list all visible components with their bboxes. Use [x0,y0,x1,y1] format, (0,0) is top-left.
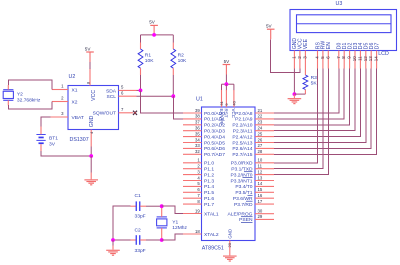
wire 5V to U1 top pins [225,75,227,85]
wire 5V to U2 VCC [89,62,91,69]
svg-text:13: 13 [258,175,263,180]
svg-text:P1.0: P1.0 [204,161,214,167]
wire 5V to LCD VCC [271,39,300,72]
power 5V U2 VCC [86,51,94,52]
svg-text:5K: 5K [311,81,318,87]
svg-text:XTAL1: XTAL1 [204,211,219,217]
svg-text:XTAL2: XTAL2 [204,232,219,238]
junction 5V tap [152,33,156,37]
U1 pin 20 GND bottom [229,241,231,256]
svg-text:R1: R1 [145,52,152,58]
svg-text:P3.0/RXD: P3.0/RXD [231,161,253,167]
svg-text:P0.0/AD0: P0.0/AD0 [204,111,225,117]
svg-text:25: 25 [258,131,263,136]
wire C1 to Y1 top junction [146,205,162,207]
svg-text:24: 24 [258,126,263,131]
U3 pin 4 RS [317,51,319,69]
svg-text:12: 12 [363,56,368,62]
U3 pin 9 D2 [349,51,351,69]
svg-text:10K: 10K [145,58,154,64]
U3 pin 2 VCC [299,51,301,69]
wire BT1 bottom to ground net [41,151,91,156]
svg-text:20: 20 [227,242,232,247]
svg-text:P2.4/A12: P2.4/A12 [232,134,252,140]
wire LCD GND down [293,69,295,95]
svg-text:33: 33 [195,143,200,148]
U1 pin 2 P1.1 [183,168,202,170]
U1 pin 26 P2.5/A13 [255,142,274,144]
wire R2 net to U1 pin38 [173,96,183,119]
IC U2 DS1307 body [68,86,119,130]
svg-text:LCD: LCD [378,51,389,57]
svg-text:22: 22 [258,114,263,119]
U1 pin 18 XTAL2 [183,233,202,235]
svg-text:P0.6/AD6: P0.6/AD6 [204,146,225,152]
U2 pin 5 SDA [119,89,137,91]
U1 pin 17 P3.7/RD [255,203,274,205]
U1 pin 32 P0.7/AD7 [183,153,202,155]
U3 pin 13 D6 [370,51,372,69]
power 5V above U1 [223,64,231,65]
bar WR [246,200,253,202]
svg-text:D7: D7 [374,43,380,50]
IC U1 AT89C51 body [202,107,256,241]
svg-text:Y1: Y1 [172,219,178,225]
junction C-ground net [111,238,115,242]
U1 pin 15 P3.5/T1 [255,191,274,193]
U1 pin 37 P0.2/AD2 [183,124,202,126]
wire C2 to Y1 bottom junction [146,239,162,241]
resistor R3 5K [304,69,306,76]
U3 pin 3 VEE [304,51,306,69]
svg-text:15: 15 [258,187,263,192]
U1 pin 40 VCC [233,84,235,90]
svg-text:26: 26 [258,137,263,142]
svg-text:27: 27 [258,143,263,148]
svg-text:28: 28 [258,149,263,154]
U1 pin 8 P1.7 [183,203,202,205]
svg-text:P0.4/AD4: P0.4/AD4 [204,134,225,140]
U3 pin 5 RW [322,51,324,69]
wire U2 GND down [90,147,92,157]
U1 pin 11 P3.1/TXD [255,168,274,170]
ground below U1 [223,256,237,257]
U2 pin 8 VCC top [89,69,91,86]
U1 pin 35 P0.4/AD4 [183,136,202,138]
svg-text:DS1307: DS1307 [70,137,89,143]
svg-text:3V: 3V [49,141,56,147]
svg-text:SDA: SDA [106,88,117,94]
wire LCD D1 to U1 pin 22 [274,69,344,119]
svg-text:32.768kHz: 32.768kHz [17,98,41,104]
wire R1 to SDA [140,75,142,90]
svg-text:14: 14 [374,56,379,62]
U1 pin 28 P2.7/A15 [255,153,274,155]
svg-text:P0.7/AD7: P0.7/AD7 [204,152,225,158]
svg-text:16: 16 [258,193,263,198]
wire LCD D2 to U1 pin 23 [274,69,350,125]
U1 pin 14 P3.4/T0 [255,185,274,187]
svg-text:R3: R3 [311,75,318,81]
U2 pin 2 X2 [52,101,68,103]
svg-text:5V: 5V [149,20,156,25]
svg-text:21: 21 [258,108,263,113]
wire XTAL2 net to U1 pin18 [162,234,183,240]
svg-text:EN: EN [326,42,332,49]
wire LCD RS to U1 pin 10 [274,69,318,163]
svg-text:37: 37 [195,120,200,125]
svg-text:34: 34 [195,137,200,142]
U1 pin 12 P3.2/INT0 [255,174,274,176]
wire LCD D4 to U1 pin 25 [274,69,360,137]
U1 pin 39 P0.0/AD0 [183,112,202,114]
U3 pin 12 D5 [365,51,367,69]
U1 pin 23 P2.2/A10 [255,124,274,126]
wire LCD D7 to U1 pin 28 [274,69,377,155]
svg-text:SQW/OUT: SQW/OUT [93,110,116,116]
svg-text:R2: R2 [178,52,185,58]
wire LCD RW to U1 pin 11 [274,69,323,169]
junction LCD GND / R3 [293,92,297,96]
svg-text:30: 30 [258,209,263,214]
svg-text:VCC: VCC [91,90,97,101]
battery BT1 3V [36,134,45,136]
svg-text:P0.3/AD3: P0.3/AD3 [204,129,225,135]
U1 pin 13 P3.3/INT1 [255,180,274,182]
svg-text:AT89C51: AT89C51 [202,245,224,251]
capacitor C2 33pF [131,239,137,241]
svg-text:P2.0/A8: P2.0/A8 [235,111,253,117]
svg-text:P1.2: P1.2 [204,172,214,178]
svg-text:P0.1/AD1: P0.1/AD1 [204,117,225,123]
svg-text:C1: C1 [135,193,142,199]
svg-text:29: 29 [258,214,263,219]
svg-text:C2: C2 [135,227,142,233]
wire R1 net to U1 pin39 [141,90,184,113]
svg-text:P1.5: P1.5 [204,190,214,196]
wire LCD D6 to U1 pin 27 [274,69,371,149]
U3 pin 11 D4 [359,51,361,69]
power 5V LCD VCC [267,29,275,30]
wire XTAL1 net to U1 pin19 [162,206,183,213]
U1 pin 29 PSEN [255,218,274,220]
svg-text:Y2: Y2 [17,91,23,97]
wire Y1 top stub [161,206,163,208]
svg-text:U1: U1 [196,96,203,102]
svg-text:P2.1/A9: P2.1/A9 [235,117,253,123]
U1 pin 16 P3.6/WR [255,197,274,199]
U3 pin 10 D3 [354,51,356,69]
svg-text:35: 35 [195,131,200,136]
junction SCL/R2 [171,94,175,98]
U1 pin 27 P2.6/A14 [255,147,274,149]
capacitor C1 33pF [131,205,137,207]
wire C1 C2 left to ground [113,206,131,240]
svg-text:5V: 5V [266,24,273,29]
svg-text:VBAT: VBAT [72,115,84,121]
svg-text:11: 11 [258,164,263,169]
svg-text:P2.2/A10: P2.2/A10 [232,123,252,129]
svg-text:VEE: VEE [303,38,309,49]
svg-text:5V: 5V [224,59,231,64]
U1 pin 38 P0.1/AD1 [183,118,202,120]
U1 pin 6 P1.5 [183,191,202,193]
svg-text:BT1: BT1 [49,135,58,141]
wire LCD EN to U1 pin 12 [274,69,328,175]
wire Y2 bottom to U2 X2 [8,102,52,110]
svg-text:10: 10 [258,158,263,163]
U2 pin 3 VBAT [50,116,68,118]
svg-text:38: 38 [195,114,200,119]
resistor R1 10K [140,35,142,43]
U1 pin 24 P2.3/A11 [255,130,274,132]
U1 pin 4 P1.3 [183,180,202,182]
wire Y1 bottom stub [161,238,163,240]
U3 pin 14 D7 [376,51,378,69]
svg-text:P2.7/A15: P2.7/A15 [232,152,252,158]
U1 pin 25 P2.4/A12 [255,136,274,138]
svg-text:10: 10 [352,56,357,62]
svg-text:P1.6: P1.6 [204,196,214,202]
svg-text:12: 12 [258,169,263,174]
svg-text:13: 13 [368,56,373,62]
bar TXD [244,171,253,173]
svg-text:32: 32 [195,149,200,154]
U1 pin 10 P3.0/RXD [255,162,274,164]
wire U2 SDA to R1 [137,89,141,91]
wire LCD D0 to U1 pin 21 [274,69,339,114]
ground below LCD [288,98,302,99]
junction SDA/R1 [139,89,143,93]
svg-text:P3.3/INT1: P3.3/INT1 [230,178,252,184]
svg-text:P1.7: P1.7 [204,202,214,208]
U3 pin 8 D1 [343,51,345,69]
svg-text:P0.2/AD2: P0.2/AD2 [204,123,225,129]
U1 pin 30 ALE/PROG [255,213,274,215]
U2 pin 7 SQW/OUT [119,112,134,114]
ground below U2 [84,179,98,180]
svg-text:X2: X2 [72,99,78,105]
svg-text:17: 17 [258,199,263,204]
wire LCD D5 to U1 pin 26 [274,69,366,143]
LCD module U3 body [290,10,397,51]
ground below C1 C2 [106,250,120,251]
crystal Y2 32.768kHz [3,91,13,98]
svg-text:23: 23 [258,120,263,125]
svg-text:X1: X1 [72,87,78,93]
U1 pin 22 P2.1/A9 [255,118,274,120]
svg-text:39: 39 [195,108,200,113]
wire R2 to SCL [172,75,174,96]
svg-text:P2.3/A11: P2.3/A11 [233,129,253,135]
svg-text:36: 36 [195,126,200,131]
U3 pin 1 GND [293,51,295,69]
svg-text:P2.5/A13: P2.5/A13 [232,140,252,146]
no-connect X on SQW/OUT [133,111,137,115]
svg-text:12Mhz: 12Mhz [172,225,187,231]
svg-text:GND: GND [89,115,95,127]
svg-text:P1.3: P1.3 [204,178,214,184]
power 5V above R1 R2 [150,25,158,26]
U1 pin 7 P1.6 [183,197,202,199]
U1 pin 33 P0.6/AD6 [183,147,202,149]
svg-text:P3.7/RD: P3.7/RD [234,202,253,208]
svg-text:40: 40 [231,100,236,105]
U3 pin 7 D0 [338,51,340,69]
U1 pin 19 XTAL1 [183,213,202,215]
junction U2 GND / BT1 [89,154,93,158]
U2 pin 6 SCL [119,95,137,97]
wire Y2 top to U2 X1 [8,80,52,90]
svg-text:11: 11 [357,56,362,61]
svg-text:33pF: 33pF [135,248,146,254]
U1 pin 31 EA/VPP [221,84,223,90]
svg-text:GND: GND [227,229,232,239]
svg-text:P1.1: P1.1 [204,167,214,173]
wire BT1 top to VBAT [41,117,50,127]
U1 pin 21 P2.0/A8 [255,112,274,114]
svg-text:33pF: 33pF [135,213,146,219]
crystal Y1 12Mhz [157,219,167,226]
U2 pin 1 X1 [52,89,68,91]
svg-text:P0.5/AD5: P0.5/AD5 [204,140,225,146]
wire LCD D3 to U1 pin 24 [274,69,355,131]
wire 5V rail R1-R2 [141,34,174,36]
U1 pin 1 P1.0 [183,162,202,164]
svg-text:19: 19 [195,208,200,213]
junction 5V U1 [225,82,229,86]
svg-text:SCL: SCL [106,94,116,100]
wire R3 bottom to ground net [294,93,305,95]
junction XTAL2 net [160,238,164,242]
wire U2 SCL to R2 [137,95,174,97]
U1 pin 5 P1.4 [183,185,202,187]
U2 pin 4 GND bottom [90,130,92,147]
svg-text:5V: 5V [85,46,92,51]
svg-text:P3.4/T0: P3.4/T0 [235,184,252,190]
bar T1 [248,194,253,196]
svg-text:18: 18 [195,229,200,234]
svg-text:P1.4: P1.4 [204,184,214,190]
svg-text:U3: U3 [336,1,343,7]
U1 pin 9 RST [225,84,227,90]
svg-text:10K: 10K [178,58,187,64]
junction XTAL1 net [160,204,164,208]
U1 pin 36 P0.3/AD3 [183,130,202,132]
resistor R2 10K [172,35,174,43]
U1 pin 34 P0.5/AD5 [183,142,202,144]
U3 pin 6 EN [327,51,329,69]
svg-text:14: 14 [258,181,263,186]
svg-text:U2: U2 [69,74,76,80]
U1 pin 3 P1.2 [183,174,202,176]
wire junction to ground [90,156,92,173]
svg-text:P2.6/A14: P2.6/A14 [232,146,252,152]
bar INT0 [243,177,253,179]
